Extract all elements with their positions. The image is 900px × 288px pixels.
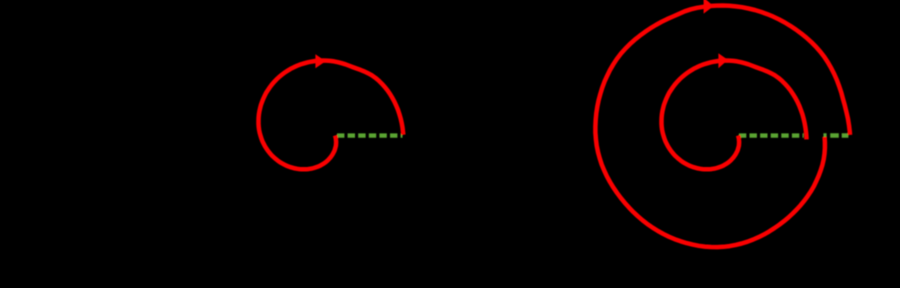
branch cut (green dashed), left figure [337,133,403,137]
inner arrowhead, right figure [718,53,728,68]
contour inner turn (red), right figure [662,61,807,170]
contour curve (red spiral, one turn), left figure [259,61,404,170]
contour outer turn (red), right figure [595,6,850,248]
direction arrowhead, left figure [315,54,325,68]
outer arrowhead, right figure [704,0,714,14]
branch cut (green dashed) segment 2, right figure [823,133,850,137]
branch cut (green dashed) segment 1, right figure [739,133,804,137]
